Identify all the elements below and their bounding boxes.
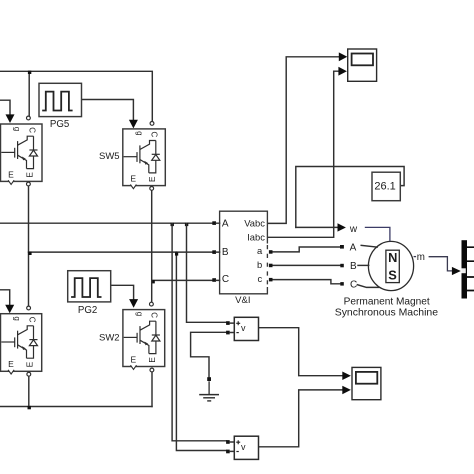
svg-text:A: A [222, 218, 229, 229]
svg-text:w: w [349, 224, 358, 235]
svg-text:PG2: PG2 [78, 305, 97, 316]
svg-text:Vabc: Vabc [244, 217, 265, 228]
svg-text:PG5: PG5 [50, 119, 69, 130]
svg-text:B: B [222, 247, 229, 258]
svg-text:26.1: 26.1 [374, 180, 395, 192]
svg-text:Iabc: Iabc [247, 232, 265, 243]
svg-text:V&I: V&I [235, 295, 250, 306]
svg-text:Synchronous Machine: Synchronous Machine [335, 308, 438, 319]
svg-text:C: C [350, 279, 357, 290]
svg-text:SW5: SW5 [99, 151, 120, 162]
svg-text:N: N [388, 250, 397, 265]
svg-text:a: a [257, 245, 263, 256]
svg-text:Permanent Magnet: Permanent Magnet [344, 297, 430, 308]
svg-text:S: S [388, 267, 397, 282]
svg-text:C: C [222, 274, 229, 285]
svg-text:B: B [350, 261, 357, 272]
svg-text:b: b [257, 259, 262, 270]
svg-text:c: c [258, 273, 263, 284]
svg-text:A: A [350, 243, 357, 254]
svg-text:m: m [417, 252, 425, 263]
svg-text:SW2: SW2 [99, 333, 120, 344]
